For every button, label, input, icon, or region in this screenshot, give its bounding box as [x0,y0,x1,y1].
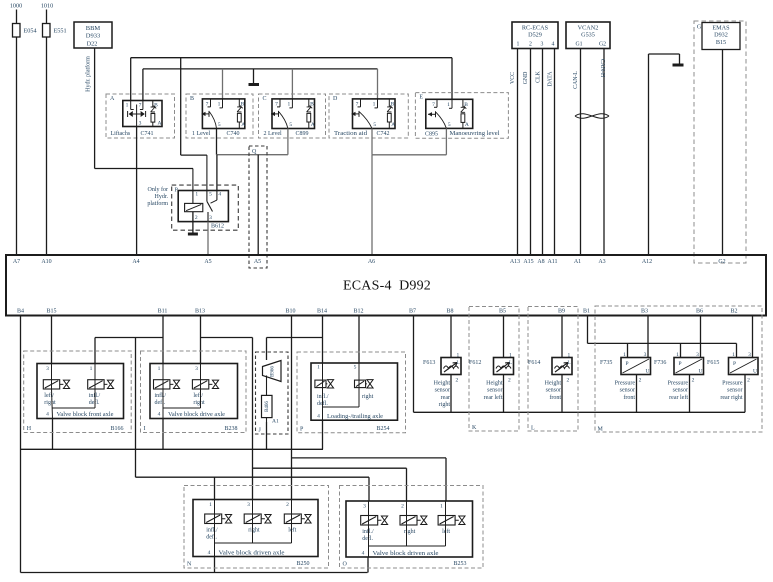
relay coil B612 [185,203,203,211]
svg-text:Height: Height [486,381,503,387]
svg-text:B6: B6 [696,309,703,315]
wire B11 branch down to lower rail [135,338,137,478]
svg-text:B254: B254 [376,426,389,432]
wire BBM D22 to relay coil (horizontal) [95,168,193,170]
svg-text:A13: A13 [510,259,520,265]
svg-text:CAN-L: CAN-L [573,71,579,89]
relay B612 body [178,191,228,222]
dashed box D [329,94,408,138]
relay pin4 bend [211,200,217,203]
wire F615 pin2 to rail [744,375,746,413]
H pin1 internal [94,364,96,390]
coil infl/defl H [88,380,104,389]
svg-text:1: 1 [158,366,161,372]
svg-text:left/: left/ [44,392,54,399]
svg-text:3: 3 [541,42,544,48]
svg-text:3: 3 [195,366,198,372]
svg-text:Hydr. platform: Hydr. platform [85,56,92,92]
svg-text:right: right [193,400,205,406]
valve solenoid C742 body [353,99,396,129]
dashed box N [184,486,329,569]
svg-text:E054: E054 [24,28,37,35]
svg-text:1: 1 [218,101,221,107]
svg-text:2: 2 [639,378,642,384]
svg-text:B238: B238 [224,426,237,432]
wire B9 to F614 pin1 [561,316,563,358]
wire down into J component [266,338,268,361]
svg-text:1: 1 [676,352,679,358]
svg-text:E: E [419,95,423,101]
svg-text:sensor: sensor [435,388,450,394]
svg-text:A7: A7 [13,259,20,265]
svg-text:K: K [472,425,477,431]
svg-text:3: 3 [363,504,366,510]
svg-text:B7: B7 [409,309,416,315]
wire F736 pin2 to rail [689,375,691,413]
svg-text:2: 2 [567,378,570,384]
svg-text:1: 1 [447,102,450,108]
svg-text:C742: C742 [376,131,389,137]
wire 1010 to pin A10 [46,10,48,256]
svg-text:2: 2 [195,215,198,221]
svg-text:right: right [248,528,260,534]
svg-text:A4: A4 [132,259,139,265]
svg-text:left/: left/ [193,392,203,399]
pressure sensor F736 rear left [674,358,704,375]
svg-text:CLK: CLK [536,70,542,82]
svg-text:Hydr.: Hydr. [155,194,169,200]
svg-text:L: L [456,361,459,366]
rail to O pin2 [253,467,407,469]
P pin1 internal [322,363,324,388]
dashed box G [694,21,746,263]
svg-text:G: G [697,25,702,31]
dashed box P relay [172,185,239,230]
drop rail2 to valve C pin 1 [291,69,293,99]
svg-text:3: 3 [46,366,49,372]
svg-text:Traction aid: Traction aid [334,131,367,137]
drop rail1 to relay pin 5 feed [180,58,182,155]
drop to O pin1 [445,458,447,501]
svg-text:D529: D529 [528,32,542,39]
coil infl/defl I [154,380,170,389]
coil left/right I [192,380,208,389]
suppressor + resistor valve D [388,99,390,107]
svg-text:D933: D933 [86,33,100,40]
svg-text:D: D [333,96,338,102]
branch B14 to J horizontal [267,337,323,339]
svg-text:sensor: sensor [727,388,742,394]
relay pin3 wire inside [207,212,209,222]
svg-text:right: right [362,394,374,400]
twisted pair symbol CAN wires [575,114,609,119]
drop rail2 to valve D pin 1 [377,69,379,99]
dashed box K [469,307,519,432]
svg-text:A: A [110,96,115,102]
switch contact valve C [279,99,281,107]
I pin1 internal [162,364,164,390]
svg-text:B3: B3 [641,309,648,315]
svg-text:4: 4 [552,42,555,48]
svg-text:Pressure: Pressure [668,381,689,387]
wire O pin4 to ground rail [367,557,369,573]
relay pin4 wire inside [216,191,218,201]
svg-text:7: 7 [139,103,142,109]
svg-text:3: 3 [644,352,647,358]
svg-text:A8: A8 [537,259,544,265]
valve solenoid C740 body [202,99,244,129]
N internal bus [215,542,292,544]
svg-text:3: 3 [696,352,699,358]
svg-text:infl./: infl./ [155,392,167,399]
svg-text:B612: B612 [211,224,224,230]
termination stub on rail2 [253,69,255,83]
svg-text:B14: B14 [317,309,327,315]
wire J A1 to ground rail [266,422,268,449]
svg-text:ECAS-4 D992: ECAS-4 D992 [343,279,431,294]
svg-text:2: 2 [286,502,289,508]
wire B4 ground vertical [20,316,22,573]
svg-text:2 Level: 2 Level [264,131,282,137]
svg-text:sensor: sensor [487,388,502,394]
svg-text:5: 5 [448,122,451,128]
svg-text:A11: A11 [547,259,557,265]
svg-text:EMAS: EMAS [712,25,730,32]
P pin5 internal [358,363,360,388]
sensor common rail (pin 2) [414,411,746,413]
dashed box Q [249,146,267,268]
svg-text:4: 4 [208,550,211,556]
drop rail2 to valve B pin 1 [222,69,224,99]
wire relay pin3 to ECAS A5 [207,222,209,255]
N internal link 1 [252,524,254,543]
drop rail2 to valve A pin 7 [142,69,144,101]
svg-text:3: 3 [139,121,142,127]
svg-text:GND: GND [523,72,529,85]
N internal link 2 [291,524,293,543]
svg-text:1: 1 [440,504,443,510]
wire H pin4 to ground rail [52,419,54,450]
svg-text:Valve block driven axle: Valve block driven axle [373,551,439,557]
coil infl/defl O [361,516,378,526]
valve block B250 body [193,500,318,557]
svg-text:2: 2 [747,378,750,384]
svg-text:A: A [311,122,315,128]
svg-text:B8: B8 [446,309,453,315]
svg-text:DATA: DATA [548,71,554,87]
wire B6 to F736 pin3 [700,316,702,358]
wire F735 pin2 to rail [636,375,638,413]
wire to ECAS A5 (Q) [257,155,259,255]
wire CLK RC-ECAS pin3 to A8 [542,49,544,256]
svg-text:front: front [623,394,635,401]
svg-text:4: 4 [317,414,320,420]
suppressor + resistor valve A [152,101,154,108]
rail infl-defl to N pin1 / O pin3 [136,476,370,478]
box EMAS D932 [702,23,740,50]
O pin2 internal [406,501,408,526]
svg-text:1: 1 [317,365,320,371]
wire B13 branch down to N pin3 [252,338,254,500]
svg-text:platform: platform [147,200,168,207]
svg-text:B1: B1 [583,309,590,315]
box BBM D933 [74,22,112,48]
svg-text:B4: B4 [17,309,24,315]
svg-text:B166: B166 [110,426,123,432]
svg-text:B5: B5 [499,309,506,315]
coil left N [284,514,301,524]
svg-text:D932: D932 [714,32,728,39]
valve block B254 body [311,363,398,420]
suppressor + resistor valve E [462,99,464,107]
svg-text:1: 1 [517,42,520,48]
pressure sensor supply rail (B1) [588,342,737,344]
svg-text:defl.: defl. [362,535,373,542]
height sensor F612 rear left [494,358,514,375]
branch B11 to H pin1 drop [94,338,96,364]
svg-text:front: front [549,394,561,401]
H pin3 internal [51,364,53,390]
svg-text:C741: C741 [140,131,153,137]
wire A12 vertical [648,54,650,255]
dashed box A [106,94,175,138]
svg-text:Loading-/trailing axle: Loading-/trailing axle [327,414,383,420]
svg-text:1: 1 [373,101,376,107]
svg-text:1000: 1000 [10,3,22,10]
valve block B253 body [346,501,473,557]
wire valve D pin5 down [371,129,373,155]
wire GND RC-ECAS pin2 to A15 [530,49,532,256]
wire valve B pin5 down [216,129,218,155]
wire B5 to F612 pin1 [503,316,505,358]
O internal link 1 [406,526,408,547]
wire B15 to H pin3 [51,316,53,364]
svg-text:E551: E551 [54,28,67,35]
O internal bus [369,545,446,547]
svg-text:sensor: sensor [546,388,561,394]
svg-text:B250: B250 [296,561,309,567]
wire B13 to I pin3 [200,316,202,364]
svg-text:B466: B466 [265,401,270,412]
svg-text:CAN-H: CAN-H [599,59,605,78]
svg-text:Q: Q [252,149,257,155]
svg-text:5: 5 [209,192,212,198]
drop rail1 to valve A pin 1 [130,58,132,101]
svg-text:G2: G2 [718,259,725,265]
svg-text:F735: F735 [600,360,612,366]
wire B7 down [413,316,415,413]
fuse E551 [43,24,51,38]
svg-text:O: O [343,562,348,568]
svg-text:A15: A15 [523,259,533,265]
svg-text:left: left [442,528,450,535]
svg-text:B11: B11 [158,309,168,315]
svg-text:Height: Height [434,381,451,387]
svg-text:defl.: defl. [206,534,217,541]
svg-text:Pressure: Pressure [615,381,636,387]
wire valve B pin5 to valve C pin5 [217,154,288,156]
wire B3 to F735 pin3 [647,316,649,358]
wire EMAS B15 to G2 [722,50,724,256]
svg-text:G1: G1 [575,42,582,48]
coil infl/defl N [205,514,222,524]
stub to F736 pin1 [680,343,682,357]
svg-text:1: 1 [195,192,198,198]
svg-text:1: 1 [209,502,212,508]
dashed box B [186,94,253,138]
valve solenoid C741 body [123,101,162,127]
svg-text:G2: G2 [599,42,606,48]
svg-text:C740: C740 [226,131,239,137]
valve solenoid C899 body [272,99,315,129]
relay switch arm [207,201,213,211]
svg-text:C: C [263,96,267,102]
svg-text:sensor: sensor [673,388,688,394]
svg-text:5: 5 [354,365,357,371]
wire B466 pin A1 [266,418,268,422]
dashed box O [340,486,484,569]
wire DATA RC-ECAS pin4 to A11 [554,49,556,256]
svg-text:P: P [679,361,682,367]
svg-text:B9: B9 [558,309,565,315]
coil left/right H [43,380,59,389]
wire F613 pin2 to rail [450,375,452,413]
box VCAN2 G535 [566,22,610,49]
svg-text:4: 4 [362,551,365,557]
svg-text:Manoeuvring level: Manoeuvring level [450,131,500,137]
suppressor + resistor valve C [308,99,310,107]
svg-text:U: U [753,369,757,375]
svg-text:Valve block front axle: Valve block front axle [57,411,114,418]
svg-text:A6: A6 [368,259,375,265]
diode pair valve A [130,101,132,110]
wire A12 horizontal [649,53,680,55]
svg-text:B15: B15 [46,309,56,315]
coil right N [244,514,261,524]
valve A pin3 internal [136,105,138,127]
svg-text:F736: F736 [654,360,666,366]
svg-text:3: 3 [247,502,250,508]
svg-text:1: 1 [126,103,129,109]
wire B14 to P pin1 [322,316,324,364]
svg-text:Pressure: Pressure [722,381,743,387]
ECU box ECAS-4 D992 [6,255,766,316]
svg-text:4: 4 [158,412,161,418]
O pin1 internal [445,501,447,526]
valve block B166 body [37,364,124,419]
wire B2 to F615 pin3 [752,316,754,358]
pressure sensor F615 rear right [729,358,759,375]
svg-text:P: P [733,361,736,367]
I internal link [200,389,202,408]
svg-text:2: 2 [456,378,459,384]
svg-text:defl.: defl. [89,399,100,406]
svg-text:3: 3 [209,215,212,221]
wire 1000 to pin A7 [16,10,18,256]
svg-text:rear right: rear right [720,395,742,401]
svg-text:5: 5 [289,122,292,128]
svg-text:B253: B253 [453,561,466,567]
svg-text:A12: A12 [642,259,652,265]
svg-text:1: 1 [509,353,512,359]
wire valve D pin5 to valve E pin5 [372,154,446,156]
svg-text:defl.: defl. [155,399,166,406]
svg-text:Height: Height [545,381,562,387]
supply rail 1 (A pin1 to E pin1) [131,57,452,59]
fuse E054 [13,24,21,38]
svg-text:B12: B12 [353,309,363,315]
svg-text:C899: C899 [295,131,308,137]
svg-text:2: 2 [401,504,404,510]
wire A6 vertical [371,155,373,255]
svg-text:A5: A5 [204,259,211,265]
svg-text:B13: B13 [195,309,205,315]
ground rail upper (to H,I,J,P pin4) [21,448,324,450]
wire valve E pin5 down [445,128,447,154]
svg-text:D22: D22 [87,41,98,48]
dashed box H [24,351,132,433]
svg-text:L: L [509,361,512,366]
dashed box J [256,352,289,434]
svg-text:Liftachs: Liftachs [111,130,131,137]
wire B8 to F613 pin1 [450,316,452,358]
svg-text:1: 1 [568,353,571,359]
svg-text:left: left [288,527,296,534]
svg-text:1: 1 [732,352,735,358]
wire F612 pin2 to rail [503,375,505,413]
svg-text:M: M [598,427,604,433]
svg-text:2: 2 [529,42,532,48]
svg-text:L: L [531,426,535,432]
wire valve C pin5 down [287,129,289,155]
svg-text:4: 4 [218,192,221,198]
N pin1-pin4 pass-through [214,500,216,557]
svg-text:RC-ECAS: RC-ECAS [522,25,549,32]
svg-text:infl./: infl./ [206,527,218,534]
switch contact valve B [210,99,212,107]
drop to N pin1 [214,477,216,499]
svg-text:H: H [27,426,32,432]
pressure sensor F735 front [621,358,651,375]
drop rail1 to valve E pin 1 [451,58,453,100]
svg-text:A: A [391,122,395,128]
svg-text:N: N [187,562,192,568]
relay pin2 wire to ground [192,212,194,233]
wire N pin4 to ground rail [214,557,216,573]
wire P pin4 to ground rail [322,420,324,449]
branch B11 to H pin1 horizontal [95,337,163,339]
resistor module B466 [262,395,273,417]
relay pin5 feed horizontal [181,154,207,156]
wire BBM D22 to relay coil (vertical) [94,48,96,169]
svg-text:BBM: BBM [86,25,101,32]
valve solenoid C895 body [426,99,473,128]
svg-text:rear: rear [441,395,450,401]
switch contact valve E [436,99,438,107]
coil right P [355,380,366,388]
H internal link [94,389,96,408]
svg-text:right: right [44,400,56,406]
svg-text:right: right [439,402,451,408]
svg-text:Valve block driven axle: Valve block driven axle [219,551,285,557]
svg-text:1010: 1010 [41,3,53,10]
switch contact valve D [360,99,362,107]
stub to F735 pin1 [627,343,629,357]
svg-text:VCC: VCC [510,72,516,84]
rail B10 to O pin1 [292,457,447,459]
wire B10 down to N pin2 [291,316,293,500]
supply rail 2 (A pin7 to D pin1) [143,68,378,70]
